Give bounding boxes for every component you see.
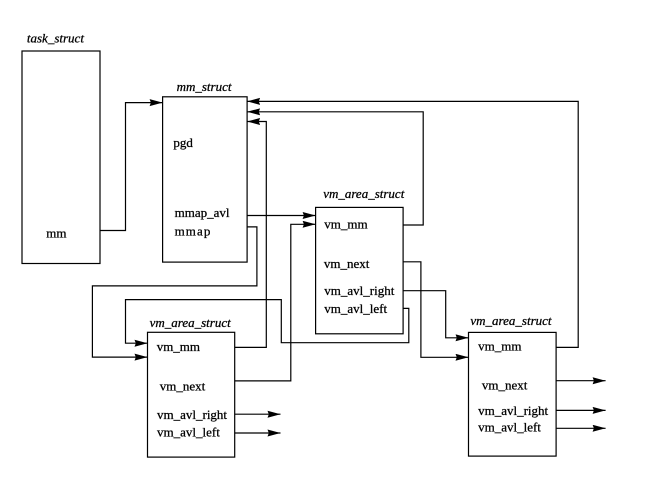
svg-text:task_struct: task_struct bbox=[27, 30, 84, 45]
arrow stub bottom-right vm_avl_left bbox=[556, 427, 606, 429]
wire bottom-right vm_mm to mm_struct bbox=[247, 101, 578, 347]
wire middle vm_mm to mm_struct bbox=[247, 112, 423, 225]
svg-text:mm: mm bbox=[46, 225, 66, 240]
svg-text:vm_avl_right: vm_avl_right bbox=[478, 403, 548, 418]
box mm_struct bbox=[163, 97, 248, 262]
box vm_area_struct bottom-left bbox=[148, 332, 235, 457]
arrow stub bottom-right vm_next bbox=[556, 380, 606, 382]
svg-text:vm_avl_right: vm_avl_right bbox=[324, 283, 394, 298]
svg-text:vm_mm: vm_mm bbox=[157, 339, 200, 354]
svg-text:vm_area_struct: vm_area_struct bbox=[150, 315, 232, 330]
wire middle vm_avl_right to bottom-right vm_area_struct bbox=[403, 291, 468, 338]
box vm_area_struct middle bbox=[316, 207, 404, 333]
box vm_area_struct bottom-right bbox=[469, 332, 557, 456]
svg-text:vm_next: vm_next bbox=[482, 377, 528, 392]
svg-text:pgd: pgd bbox=[173, 135, 193, 150]
svg-text:vm_next: vm_next bbox=[324, 256, 370, 271]
svg-text:vm_avl_left: vm_avl_left bbox=[478, 420, 541, 435]
svg-text:mmap: mmap bbox=[175, 223, 212, 238]
svg-text:vm_avl_left: vm_avl_left bbox=[324, 301, 387, 316]
arrow stub bottom-left vm_avl_right bbox=[235, 413, 281, 415]
svg-text:vm_next: vm_next bbox=[160, 378, 206, 393]
arrow stub bottom-left vm_avl_left bbox=[235, 432, 281, 434]
box task_struct bbox=[22, 51, 100, 264]
wire mm_struct.mmap_avl to middle vm_area_struct bbox=[247, 215, 316, 217]
wire bottom-left vm_next to middle vm_area_struct bbox=[235, 224, 316, 381]
wire bottom-left vm_mm to mm_struct bbox=[235, 122, 267, 348]
svg-text:vm_area_struct: vm_area_struct bbox=[323, 186, 405, 201]
svg-text:vm_mm: vm_mm bbox=[478, 338, 521, 353]
wire task.mm to mm_struct bbox=[100, 103, 163, 231]
svg-text:vm_area_struct: vm_area_struct bbox=[470, 313, 552, 328]
wire mm_struct.mmap to bottom-left vm_area_struct bbox=[92, 227, 257, 357]
arrow stub bottom-right vm_avl_right bbox=[556, 409, 606, 411]
svg-text:vm_avl_left: vm_avl_left bbox=[157, 424, 220, 439]
wire middle vm_next to bottom-right vm_area_struct bbox=[403, 262, 468, 358]
wire middle vm_avl_left to bottom-left vm_area_struct bbox=[126, 300, 409, 344]
svg-text:vm_mm: vm_mm bbox=[324, 216, 367, 231]
svg-text:mmap_avl: mmap_avl bbox=[175, 205, 230, 220]
svg-text:vm_avl_right: vm_avl_right bbox=[157, 407, 227, 422]
svg-text:mm_struct: mm_struct bbox=[177, 79, 232, 94]
